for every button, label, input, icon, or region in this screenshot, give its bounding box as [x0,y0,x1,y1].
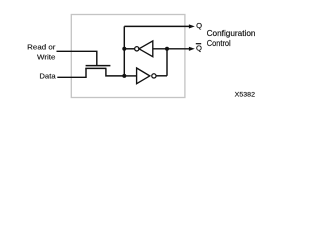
wire inverter U1 input to Qbar output [153,48,191,50]
label Read or Write [27,43,56,62]
wire inverter U2 output to node B [156,75,167,77]
svg-text:Control: Control [207,39,231,48]
wire node A to inverter U2 input [124,75,136,77]
node A junction lower [122,74,126,78]
arrow Q [189,24,195,28]
svg-text:Q: Q [196,44,202,53]
svg-text:Data: Data [39,71,56,80]
wire transistor drain to latch node A [106,68,124,76]
wire node B vertical [166,49,168,76]
node B junction [165,47,169,51]
svg-text:Write: Write [37,52,55,61]
node A junction upper [122,47,126,51]
wire node A to inverter U1 output bubble [124,48,134,50]
transistor Q1 channel bar [85,67,106,69]
svg-text:X5382: X5382 [235,91,256,98]
wire Q output top [124,25,190,27]
svg-text:Q: Q [196,21,202,30]
label Configuration Control [207,29,256,48]
wire Read or Write to transistor gate [57,51,97,65]
wire Data to transistor source [57,68,86,77]
overbar of Qbar [196,43,201,45]
arrow Qbar [189,47,195,51]
memory cell boundary box [71,15,185,98]
inverter U1 triangle pointing left [139,41,153,57]
inverter U2 bubble [152,74,156,78]
svg-text:Configuration: Configuration [207,29,256,38]
wire node A vertical [123,26,125,76]
transistor Q1 gate bar [86,65,111,67]
inverter U2 triangle pointing right [137,68,150,84]
inverter U1 bubble [135,47,139,51]
svg-text:Read or: Read or [27,43,56,52]
